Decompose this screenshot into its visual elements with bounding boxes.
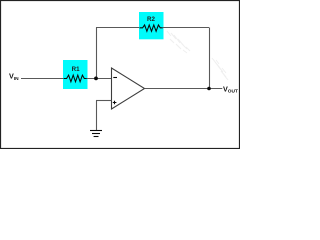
junction at inverting input	[94, 77, 98, 81]
wire down to ground	[96, 101, 98, 131]
resistor R2	[139, 12, 164, 39]
wire feedback vertical left	[96, 28, 98, 79]
ground	[90, 131, 102, 137]
watermark	[167, 31, 228, 80]
svg-text:R2: R2	[147, 16, 155, 23]
wire output	[145, 88, 223, 90]
wire feedback vertical right down to output	[209, 28, 211, 89]
svg-text:R1: R1	[72, 66, 80, 73]
wire input VIN to R1	[21, 78, 63, 80]
wire R1 to op-amp inverting input	[87, 78, 112, 80]
junction at output	[207, 87, 211, 91]
wire R2 to right vertical	[163, 27, 209, 29]
op-amp U1	[112, 68, 145, 109]
wire non-inverting input to ground corner	[96, 100, 112, 102]
wire top rail to R2	[96, 27, 139, 29]
resistor R1	[63, 60, 88, 89]
